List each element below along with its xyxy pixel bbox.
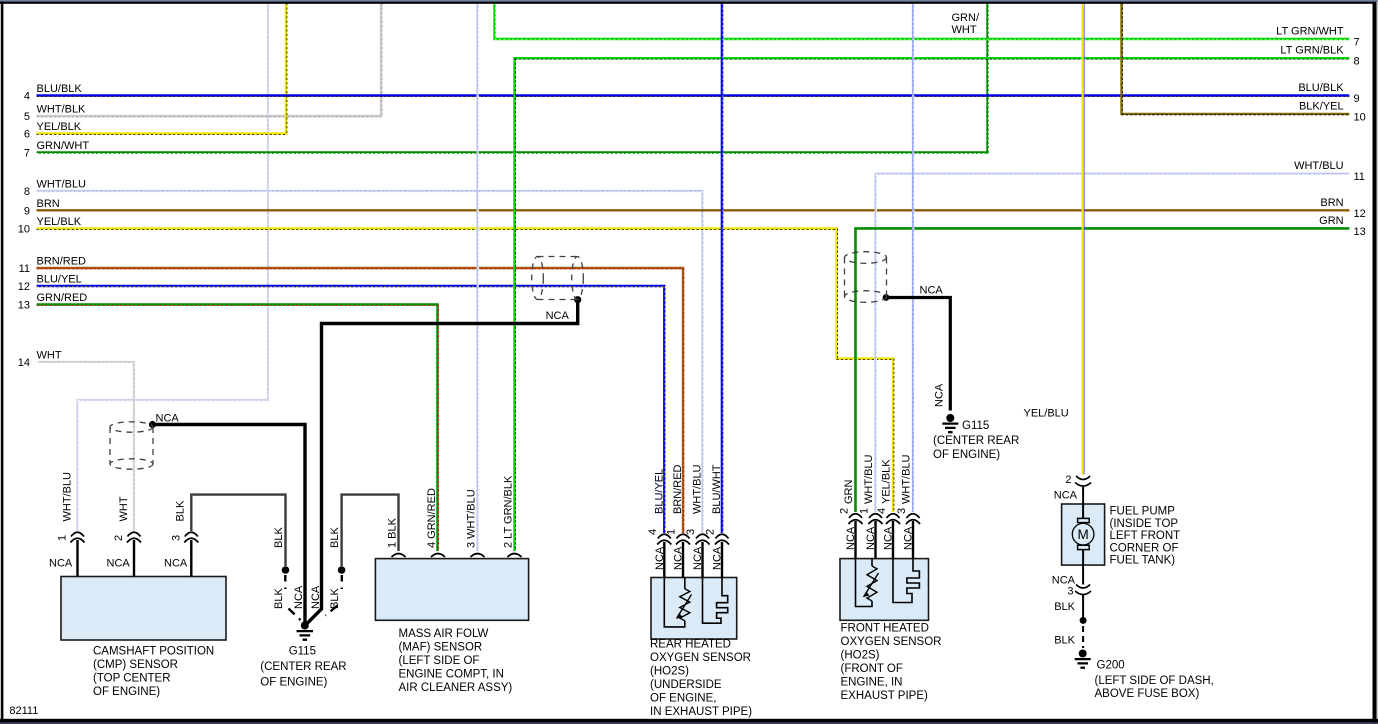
svg-text:3: 3 (896, 508, 908, 514)
svg-text:NCA: NCA (934, 383, 946, 407)
svg-text:NCA: NCA (920, 285, 944, 297)
svg-text:4: 4 (647, 529, 659, 535)
svg-text:3 WHT/BLU: 3 WHT/BLU (466, 489, 478, 548)
svg-text:WHT/BLU: WHT/BLU (62, 472, 74, 522)
svg-text:BLU/WHT: BLU/WHT (711, 464, 723, 514)
svg-text:NCA: NCA (654, 546, 666, 570)
svg-text:ENGINE, IN: ENGINE, IN (841, 677, 903, 689)
svg-text:FUEL PUMP: FUEL PUMP (1110, 506, 1176, 518)
svg-text:(CENTER REAR: (CENTER REAR (933, 435, 1019, 447)
svg-text:3: 3 (685, 529, 697, 535)
svg-text:NCA: NCA (845, 526, 857, 550)
svg-text:NCA: NCA (546, 310, 570, 322)
svg-text:(HO2S): (HO2S) (650, 666, 689, 678)
svg-text:BLU/BLK: BLU/BLK (1298, 82, 1344, 94)
svg-text:14: 14 (18, 357, 30, 369)
svg-text:REAR HEATED: REAR HEATED (650, 639, 731, 651)
svg-text:NCA: NCA (107, 558, 131, 570)
svg-text:2: 2 (705, 529, 717, 535)
svg-text:AIR CLEANER ASSY): AIR CLEANER ASSY) (399, 682, 513, 694)
svg-text:BLK/YEL: BLK/YEL (1299, 100, 1344, 112)
svg-text:(LEFT SIDE OF: (LEFT SIDE OF (399, 655, 480, 667)
svg-text:NCA: NCA (712, 546, 724, 570)
svg-text:LT GRN/WHT: LT GRN/WHT (1276, 26, 1344, 38)
svg-text:NCA: NCA (1054, 490, 1078, 502)
svg-text:ENGINE COMPT, IN: ENGINE COMPT, IN (399, 669, 504, 681)
svg-text:1 BLK: 1 BLK (387, 517, 399, 548)
svg-text:82111: 82111 (9, 705, 38, 717)
svg-text:NCA: NCA (692, 546, 704, 570)
svg-text:2 LT GRN/BLK: 2 LT GRN/BLK (503, 475, 515, 548)
svg-text:GRN/RED: GRN/RED (37, 292, 88, 304)
svg-text:WHT: WHT (37, 350, 62, 362)
svg-text:13: 13 (18, 300, 30, 312)
svg-text:GRN: GRN (843, 480, 855, 505)
svg-text:10: 10 (1354, 111, 1366, 123)
svg-text:NCA: NCA (310, 585, 322, 609)
svg-text:NCA: NCA (164, 558, 188, 570)
svg-text:8: 8 (24, 186, 30, 198)
svg-text:YEL/BLK: YEL/BLK (37, 216, 82, 228)
svg-text:NCA: NCA (49, 558, 73, 570)
svg-text:10: 10 (18, 224, 30, 236)
svg-text:NCA: NCA (673, 546, 685, 570)
svg-text:NCA: NCA (293, 585, 305, 609)
svg-text:WHT: WHT (118, 496, 130, 521)
svg-text:12: 12 (18, 281, 30, 293)
svg-text:NCA: NCA (883, 526, 895, 550)
svg-text:BLU/YEL: BLU/YEL (37, 274, 82, 286)
svg-text:LEFT FRONT: LEFT FRONT (1110, 530, 1181, 542)
svg-text:(UNDERSIDE: (UNDERSIDE (650, 679, 722, 691)
svg-text:9: 9 (24, 205, 30, 217)
svg-text:(MAF) SENSOR: (MAF) SENSOR (399, 642, 483, 654)
svg-text:(CMP) SENSOR: (CMP) SENSOR (93, 659, 178, 671)
svg-text:(HO2S): (HO2S) (841, 650, 880, 662)
svg-text:BLK: BLK (1054, 635, 1075, 647)
svg-text:ABOVE FUSE BOX): ABOVE FUSE BOX) (1095, 688, 1200, 700)
svg-text:BLK: BLK (329, 527, 341, 548)
svg-text:(TOP CENTER: (TOP CENTER (93, 673, 171, 685)
svg-text:5: 5 (24, 111, 30, 123)
svg-text:11: 11 (1354, 171, 1365, 183)
svg-text:YEL/BLK: YEL/BLK (881, 459, 893, 504)
svg-text:NCA: NCA (865, 526, 877, 550)
svg-text:8: 8 (1354, 56, 1360, 68)
svg-text:3: 3 (1067, 586, 1073, 598)
svg-text:G115: G115 (289, 646, 316, 658)
svg-text:FRONT HEATED: FRONT HEATED (841, 623, 929, 635)
svg-text:BLK: BLK (329, 588, 341, 609)
svg-text:YEL/BLU: YEL/BLU (1024, 408, 1069, 420)
svg-text:WHT: WHT (952, 24, 977, 36)
svg-text:7: 7 (24, 148, 30, 160)
svg-text:11: 11 (19, 263, 30, 275)
svg-text:12: 12 (1354, 208, 1366, 220)
svg-text:1: 1 (57, 535, 69, 541)
svg-text:4 GRN/RED: 4 GRN/RED (426, 488, 438, 548)
svg-text:BLK: BLK (273, 527, 285, 548)
svg-text:BLK: BLK (1054, 601, 1075, 613)
svg-text:4: 4 (876, 508, 888, 514)
svg-text:(FRONT OF: (FRONT OF (841, 663, 903, 675)
svg-text:OF ENGINE): OF ENGINE) (93, 686, 160, 698)
svg-text:GRN/: GRN/ (952, 12, 980, 24)
svg-text:OXYGEN SENSOR: OXYGEN SENSOR (650, 652, 751, 664)
svg-text:GRN: GRN (1319, 215, 1344, 227)
svg-text:OF ENGINE): OF ENGINE) (260, 677, 327, 689)
svg-text:BLK: BLK (273, 588, 285, 609)
svg-text:FUEL TANK): FUEL TANK) (1110, 555, 1176, 567)
svg-text:BRN: BRN (1320, 197, 1343, 209)
svg-text:G200: G200 (1097, 660, 1125, 672)
svg-text:(INSIDE TOP: (INSIDE TOP (1110, 518, 1179, 530)
svg-text:2: 2 (1065, 474, 1071, 486)
svg-text:6: 6 (24, 129, 30, 141)
svg-text:YEL/BLK: YEL/BLK (37, 121, 82, 133)
svg-text:GRN/WHT: GRN/WHT (37, 140, 90, 152)
svg-text:BRN/RED: BRN/RED (672, 464, 684, 514)
svg-text:BLU/YEL: BLU/YEL (653, 469, 665, 514)
svg-text:OXYGEN SENSOR: OXYGEN SENSOR (841, 636, 942, 648)
svg-text:(LEFT SIDE OF DASH,: (LEFT SIDE OF DASH, (1095, 675, 1214, 687)
svg-text:1: 1 (666, 529, 678, 535)
svg-text:13: 13 (1354, 226, 1366, 238)
svg-text:BLK: BLK (175, 500, 187, 521)
svg-text:M: M (1077, 527, 1088, 542)
svg-text:CAMSHAFT POSITION: CAMSHAFT POSITION (93, 646, 214, 658)
svg-text:WHT/BLU: WHT/BLU (863, 454, 875, 504)
svg-text:MASS AIR FOLW: MASS AIR FOLW (399, 628, 489, 640)
svg-text:G115: G115 (962, 420, 989, 432)
svg-text:WHT/BLU: WHT/BLU (901, 454, 913, 504)
svg-text:IN EXHAUST PIPE): IN EXHAUST PIPE) (650, 706, 752, 718)
svg-text:LT GRN/BLK: LT GRN/BLK (1280, 45, 1344, 57)
svg-text:NCA: NCA (156, 413, 180, 425)
svg-text:OF ENGINE): OF ENGINE) (933, 449, 1000, 461)
svg-text:BRN/RED: BRN/RED (37, 256, 87, 268)
svg-text:WHT/BLU: WHT/BLU (692, 464, 704, 514)
svg-text:WHT/BLU: WHT/BLU (1294, 160, 1344, 172)
svg-text:2: 2 (839, 508, 851, 514)
svg-text:7: 7 (1354, 37, 1360, 49)
svg-text:3: 3 (170, 535, 182, 541)
svg-text:EXHAUST PIPE): EXHAUST PIPE) (841, 690, 929, 702)
svg-text:OF ENGINE,: OF ENGINE, (650, 693, 716, 705)
svg-text:4: 4 (24, 91, 30, 103)
svg-text:(CENTER REAR: (CENTER REAR (260, 661, 346, 673)
svg-text:NCA: NCA (903, 526, 915, 550)
svg-text:2: 2 (113, 535, 125, 541)
svg-text:CORNER OF: CORNER OF (1110, 542, 1179, 554)
svg-text:WHT/BLU: WHT/BLU (37, 179, 87, 191)
svg-text:BLU/BLK: BLU/BLK (37, 83, 83, 95)
svg-text:WHT/BLK: WHT/BLK (37, 104, 87, 116)
svg-text:BRN: BRN (37, 198, 60, 210)
svg-text:1: 1 (859, 508, 871, 514)
svg-text:9: 9 (1354, 93, 1360, 105)
